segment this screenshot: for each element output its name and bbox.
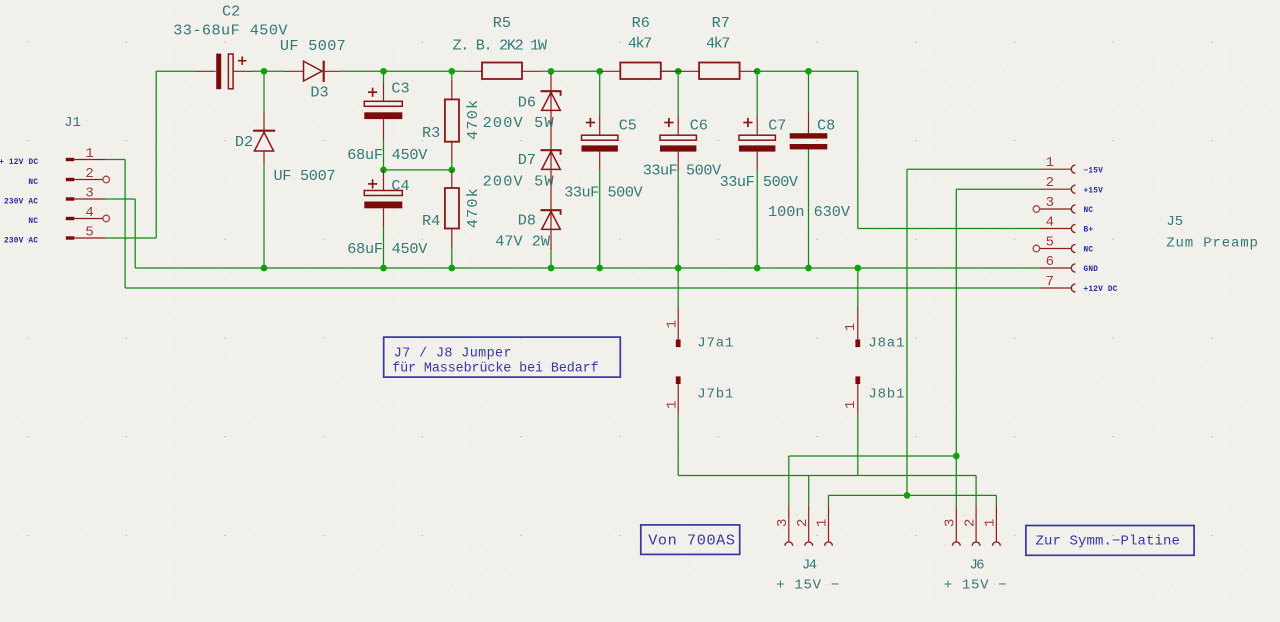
junction GND rail [448, 265, 455, 272]
svg-text:R7: R7 [712, 14, 730, 32]
junction top rail [805, 68, 812, 75]
svg-text:Zum Preamp: Zum Preamp [1166, 235, 1259, 251]
svg-text:1: 1 [983, 519, 999, 527]
wire jumper rail to J6 pin2 [678, 475, 976, 477]
svg-text:J7a1: J7a1 [697, 336, 734, 352]
jumper J8b1 [843, 376, 905, 415]
svg-text:R3: R3 [422, 124, 440, 142]
connector J6 pin 1 [983, 506, 1001, 546]
svg-text:4k7: 4k7 [628, 34, 651, 52]
diode D2 [235, 112, 335, 185]
wire J1 pin5 up [155, 71, 157, 238]
svg-text:3: 3 [775, 519, 791, 527]
svg-text:2: 2 [795, 519, 811, 527]
svg-text:J8a1: J8a1 [868, 336, 905, 352]
wire R6 to node [661, 70, 681, 72]
svg-text:4k7: 4k7 [706, 34, 729, 52]
svg-text:1: 1 [1046, 155, 1054, 171]
connector J4 pin 1 [815, 506, 833, 546]
svg-text:470k: 470k [464, 99, 482, 140]
svg-text:R6: R6 [632, 14, 650, 32]
capacitor C4 [347, 170, 428, 258]
svg-text:1: 1 [665, 320, 681, 328]
wire C2 to D3 [253, 70, 285, 72]
junction GND rail [596, 265, 603, 272]
wire to J6 pin2 [975, 476, 977, 506]
svg-text:5: 5 [1046, 234, 1054, 250]
wire GND to J8a1 [857, 268, 859, 307]
junction GND rail [675, 265, 682, 272]
svg-text:230V AC: 230V AC [4, 238, 38, 246]
resistor R6 [601, 14, 678, 79]
connector J1 [0, 115, 109, 246]
junction GND rail [805, 265, 812, 272]
svg-text:4: 4 [1046, 214, 1054, 230]
svg-text:C6: C6 [690, 116, 708, 134]
wire B+ vertical [857, 71, 859, 228]
junction +15V branch [953, 453, 960, 460]
wire J1 pin1 [106, 159, 126, 161]
wire GND to J7a1 [677, 268, 679, 307]
zener diode D6 [483, 91, 562, 132]
wire C3 bottom [383, 139, 385, 170]
svg-text:1: 1 [665, 400, 681, 408]
svg-text:68uF 450V: 68uF 450V [347, 240, 428, 258]
wire +12V rail [125, 287, 1039, 289]
svg-text:GND: GND [1084, 266, 1099, 274]
junction -15V branch [904, 492, 911, 499]
junction top rail [548, 68, 555, 75]
wire J1 pin3 down [134, 199, 136, 268]
junction top rail [448, 68, 455, 75]
jumper J7b1 [665, 376, 735, 415]
svg-text:470k: 470k [464, 187, 482, 228]
svg-text:J1: J1 [64, 115, 81, 131]
svg-text:D3: D3 [310, 83, 328, 101]
svg-text:C7: C7 [768, 116, 786, 134]
svg-text:D6: D6 [518, 93, 536, 111]
wire -15V bottom rail [829, 494, 997, 496]
connector J4 pin 2 [795, 506, 813, 546]
wire node to C5 [599, 71, 601, 115]
junction top rail [380, 68, 387, 75]
wire node to C8 [808, 71, 810, 113]
note box Zur Symm.-Platine [1026, 526, 1194, 556]
diode D3 [280, 37, 346, 101]
resistor R4 [422, 170, 482, 248]
svg-text:J7b1: J7b1 [697, 387, 734, 403]
svg-text:UF 5007: UF 5007 [273, 167, 335, 185]
svg-text:47V 2W: 47V 2W [495, 233, 551, 251]
wire to J6 pin1 [995, 495, 997, 505]
svg-text:R4: R4 [422, 212, 440, 230]
svg-text:+15V: +15V [1084, 187, 1104, 195]
svg-text:230V AC: 230V AC [4, 199, 38, 207]
svg-text:J4: J4 [802, 558, 817, 574]
capacitor C3 [347, 80, 428, 164]
svg-text:D2: D2 [235, 133, 253, 151]
wire C6 to GND [677, 170, 679, 268]
wire GND rail [135, 267, 1039, 269]
jumper J8a1 [843, 307, 905, 352]
svg-text:68uF 450V: 68uF 450V [347, 146, 428, 164]
wire node to C6 [677, 71, 679, 115]
svg-text:33-68uF 450V: 33-68uF 450V [173, 22, 288, 40]
wire J8b1 down [857, 415, 859, 475]
svg-text:3: 3 [943, 519, 959, 527]
capacitor C8 [768, 113, 851, 221]
svg-text:200V 5W: 200V 5W [483, 114, 555, 132]
svg-text:C3: C3 [391, 80, 409, 98]
capacitor C6 [643, 116, 722, 180]
svg-text:+ 12V DC: + 12V DC [0, 159, 38, 167]
wire R5 to R6 [542, 70, 601, 72]
wire C4 bottom [383, 227, 385, 268]
wire node to R3 [451, 71, 453, 79]
zener diode D7 [483, 150, 562, 190]
wire node to D6 [550, 71, 552, 75]
connector J5 [1033, 155, 1259, 294]
svg-text:Zur Symm.−Platine: Zur Symm.−Platine [1036, 533, 1181, 549]
wire J7b1 down [677, 415, 679, 475]
svg-text:R5: R5 [493, 14, 511, 32]
svg-text:6: 6 [1046, 254, 1054, 270]
junction GND rail [854, 265, 861, 272]
svg-text:J5: J5 [1166, 214, 1183, 230]
svg-text:200V 5W: 200V 5W [483, 173, 555, 191]
wire to J4 pin1 [828, 495, 830, 505]
svg-text:1: 1 [85, 146, 93, 162]
svg-text:4: 4 [85, 205, 93, 221]
zener diode D8 [495, 210, 561, 250]
capacitor C2 [173, 3, 288, 90]
wire D8 to GND [550, 248, 552, 268]
wire C5 to GND [599, 170, 601, 268]
svg-text:3: 3 [1046, 195, 1054, 211]
resistor R5 [453, 14, 548, 79]
wire J1 pin5 [106, 237, 157, 239]
svg-text:NC: NC [1084, 247, 1094, 255]
svg-text:Von 700AS: Von 700AS [648, 532, 735, 550]
wire -15V to J5 pin1 [907, 168, 1039, 170]
wire D2 to GND [263, 163, 265, 268]
svg-text:33uF 500V: 33uF 500V [564, 183, 643, 201]
resistor R7 [678, 14, 757, 79]
wire +15V branch to J4 pin3 [789, 455, 957, 457]
wire node to C7 [756, 71, 758, 115]
resistor R3 [422, 80, 482, 162]
svg-text:J6: J6 [969, 558, 984, 574]
junction GND rail [754, 265, 761, 272]
capacitor C5 [564, 116, 643, 202]
junction R3-R4 node [448, 167, 455, 174]
wire -15V vertical [906, 169, 908, 495]
wire R7 to B+ corner [757, 70, 858, 72]
wire J1 pin3 [106, 198, 136, 200]
junction top rail [261, 68, 268, 75]
svg-text:+ 15V −: + 15V − [944, 578, 1008, 594]
svg-text:D7: D7 [518, 151, 536, 169]
svg-text:1: 1 [843, 401, 859, 409]
svg-text:100n 630V: 100n 630V [768, 203, 851, 221]
connector J6 pin 3 [943, 506, 961, 546]
junction GND rail [261, 265, 268, 272]
svg-text:−15V: −15V [1084, 167, 1104, 175]
connector J6 pin 2 [962, 506, 980, 546]
svg-text:2: 2 [85, 166, 93, 182]
svg-text:1: 1 [815, 519, 831, 527]
svg-text:3: 3 [85, 186, 93, 202]
junction top rail [675, 68, 682, 75]
junction top rail [754, 68, 761, 75]
svg-text:für Massebrücke bei Bedarf: für Massebrücke bei Bedarf [392, 362, 598, 377]
capacitor C7 [720, 116, 799, 191]
svg-text:B+: B+ [1084, 227, 1094, 235]
svg-text:J7 / J8 Jumper: J7 / J8 Jumper [394, 346, 512, 361]
junction GND rail [380, 265, 387, 272]
jumper J7a1 [665, 307, 735, 352]
svg-text:7: 7 [1046, 274, 1054, 290]
wire C3-C4 to R3-R4 link [384, 169, 452, 171]
wire D3 to R5 [340, 70, 462, 72]
wire C7 to GND [756, 170, 758, 268]
svg-text:C5: C5 [619, 116, 637, 134]
wire J1 pin1 down [124, 160, 126, 289]
note box Von 700AS [641, 525, 740, 555]
svg-text:C8: C8 [817, 116, 835, 134]
svg-text:+12V DC: +12V DC [1084, 286, 1118, 294]
connector J4 pin 3 [775, 506, 793, 546]
wire +15V to J5 pin2 [956, 188, 1039, 190]
svg-text:NC: NC [1084, 207, 1094, 215]
wire +15V vertical [955, 189, 957, 506]
svg-text:5: 5 [85, 225, 93, 241]
wire node to C3 [383, 71, 385, 83]
svg-text:33uF 500V: 33uF 500V [643, 161, 722, 179]
wire zener chain D6-D7-D8 [550, 73, 552, 249]
svg-text:Z. B. 2K2 1W: Z. B. 2K2 1W [453, 36, 548, 54]
connector J4 label [776, 558, 840, 594]
wire R4 to GND [451, 248, 453, 268]
wire B+ to J5 pin4 [858, 228, 1039, 230]
wire to J4 pin3 [788, 456, 790, 506]
svg-text:C2: C2 [222, 3, 240, 21]
svg-text:2: 2 [962, 519, 978, 527]
svg-text:NC: NC [28, 218, 38, 226]
wire C8 to GND [808, 149, 810, 268]
wire node to D2 [263, 71, 265, 112]
svg-text:2: 2 [1046, 175, 1054, 191]
svg-text:+ 15V −: + 15V − [776, 578, 840, 594]
svg-text:D8: D8 [518, 212, 536, 230]
svg-text:1: 1 [843, 323, 859, 331]
svg-text:UF 5007: UF 5007 [280, 37, 346, 55]
junction C3-C4 node [380, 167, 387, 174]
wire C2 input [156, 70, 195, 72]
svg-text:NC: NC [28, 179, 38, 187]
svg-text:J8b1: J8b1 [868, 387, 905, 403]
wire to J4 pin2 [808, 476, 810, 506]
connector J6 label [944, 558, 1008, 594]
svg-text:33uF 500V: 33uF 500V [720, 173, 799, 191]
junction top rail [596, 68, 603, 75]
wire R3 bottom [451, 161, 453, 170]
note box J7/J8 jumper [384, 337, 621, 377]
svg-text:C4: C4 [391, 177, 409, 195]
junction GND rail [548, 265, 555, 272]
